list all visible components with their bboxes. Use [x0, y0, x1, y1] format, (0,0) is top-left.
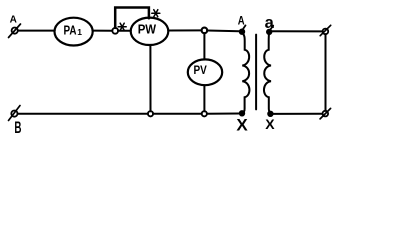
wire PW to junction — [168, 29, 201, 31]
junction PV on bottom rail — [202, 111, 207, 116]
wire PA1 to node — [93, 30, 113, 32]
wire PW down to bottom rail — [149, 45, 151, 111]
terminal A slash — [9, 24, 21, 38]
primary terminal tick — [243, 25, 246, 29]
bottom rail wire — [18, 113, 240, 115]
svg-text:a: a — [265, 14, 275, 32]
wire PV down to bottom rail — [203, 85, 205, 111]
node (wattmeter current-coil tap) — [112, 28, 118, 34]
transformer secondary terminal dot a — [267, 29, 272, 34]
svg-text:A: A — [10, 15, 17, 26]
transformer primary winding — [242, 32, 249, 113]
svg-text:X: X — [236, 116, 248, 135]
polarity asterisk at node — [118, 23, 126, 30]
terminal right bottom slash — [320, 108, 331, 119]
ammeter PA1 — [55, 18, 93, 46]
transformer secondary winding — [264, 32, 271, 113]
voltmeter PV — [188, 59, 222, 85]
wire secondary x to right bottom terminal — [273, 113, 322, 115]
terminal right top — [323, 29, 329, 35]
svg-text:B: B — [14, 117, 21, 137]
svg-text:PV: PV — [194, 63, 208, 77]
svg-text:1: 1 — [77, 27, 82, 37]
terminal B — [11, 111, 17, 117]
secondary terminal tick — [270, 26, 273, 30]
transformer core — [255, 35, 257, 110]
terminal right top slash — [320, 25, 331, 35]
right vertical wire (load side) — [325, 34, 327, 111]
svg-text:PA: PA — [64, 22, 77, 37]
polarity asterisk at PW — [152, 10, 160, 17]
svg-text:PW: PW — [138, 22, 157, 37]
wire secondary a to right terminal — [272, 30, 323, 32]
wire junction to transformer primary — [207, 30, 239, 33]
svg-text:X: X — [265, 116, 275, 132]
wire node to PW — [118, 30, 131, 32]
transformer primary terminal dot A — [239, 29, 244, 34]
junction PW on bottom rail — [148, 111, 153, 116]
svg-text:A: A — [238, 15, 245, 28]
terminal right bottom — [323, 111, 329, 117]
transformer secondary bottom dot x — [268, 111, 273, 116]
wire A to PA1 — [18, 30, 55, 32]
wire junction down to PV — [203, 33, 205, 59]
junction node — [202, 28, 208, 34]
wattmeter PW — [131, 18, 169, 45]
wattmeter current-coil loop — [115, 8, 149, 28]
terminal A — [12, 28, 18, 34]
transformer primary bottom dot X — [239, 111, 244, 116]
terminal B slash — [9, 106, 21, 121]
